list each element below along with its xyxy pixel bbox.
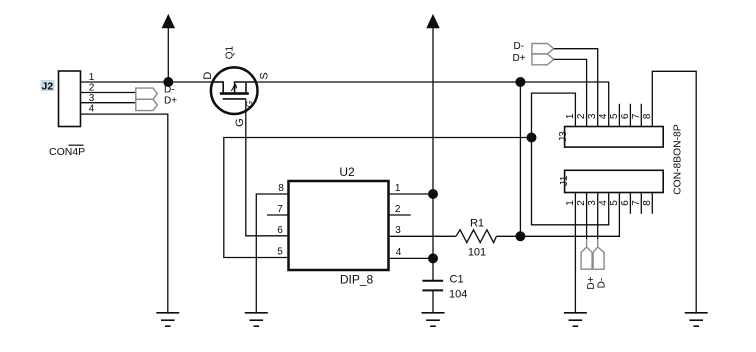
stub J1 pin2 (586, 193, 588, 240)
junction node U2 pin4 / C1 (428, 253, 438, 263)
wire node A down to J1 pin4 (532, 138, 609, 225)
stub J1 pin3 (597, 193, 599, 240)
svg-text:C1: C1 (450, 273, 464, 285)
net flag D+ (top right) (532, 54, 554, 65)
svg-text:2: 2 (576, 113, 587, 119)
svg-text:Q1: Q1 (224, 45, 235, 59)
svg-text:7: 7 (277, 204, 283, 215)
svg-text:5: 5 (609, 200, 620, 206)
wire S-net vertical drop (519, 82, 521, 236)
wire U2 pin3 to R1 (389, 235, 456, 237)
svg-text:3: 3 (395, 225, 401, 236)
J3 pin numbers 1-8 (565, 113, 653, 119)
wire junction to J1 pin5 (520, 193, 619, 237)
svg-text:CON-8BON-8P: CON-8BON-8P (673, 124, 684, 195)
capacitor C1 (422, 281, 443, 313)
svg-text:D+: D+ (586, 276, 597, 289)
svg-text:1: 1 (395, 183, 401, 194)
value label CON4P (49, 145, 85, 158)
svg-text:2: 2 (395, 204, 401, 215)
junction node R1 / S-net drop (515, 231, 525, 241)
svg-text:D-: D- (597, 278, 608, 289)
svg-text:4: 4 (89, 103, 95, 114)
junction node U2 pin1 (428, 189, 438, 199)
svg-text:D: D (202, 72, 214, 80)
stub U2 pin7 (267, 214, 289, 216)
svg-text:6: 6 (620, 113, 631, 119)
ground (J1 pin1) (564, 313, 587, 326)
net flag D+ (bottom, J1 pin2) (581, 239, 592, 269)
svg-text:5: 5 (277, 247, 283, 258)
wire U2 pin4 to VCC line (389, 257, 434, 259)
wire flag D- to J3 pin3 (554, 49, 598, 127)
svg-text:DIP_8: DIP_8 (340, 273, 374, 287)
ground (far right) (685, 313, 708, 326)
connector J2 body (59, 71, 81, 127)
wire node A up to J3 pin1 (532, 93, 576, 137)
svg-text:1: 1 (565, 113, 576, 119)
connector J3 body (565, 127, 664, 148)
svg-text:6: 6 (277, 225, 283, 236)
stub J3 pin5 (618, 104, 620, 127)
svg-text:6: 6 (620, 200, 631, 206)
wire Q1 source to J3 pin4 (S net) (257, 82, 609, 127)
svg-text:101: 101 (468, 246, 486, 258)
svg-text:4: 4 (396, 247, 402, 258)
wire J1 pin1 to ground (574, 193, 576, 313)
svg-text:J2: J2 (42, 80, 54, 92)
junction node at J2 pin1 / Q1 drain (163, 77, 173, 87)
svg-text:5: 5 (609, 113, 620, 119)
net flag D- (bottom, J1 pin3) (593, 239, 604, 269)
stub J1 pin7 (640, 193, 642, 214)
svg-text:J3: J3 (558, 131, 569, 142)
ground (J2 pin4) (156, 313, 179, 326)
wire U2 pin8 to ground (256, 194, 288, 313)
svg-text:1: 1 (565, 200, 576, 206)
net flag D+ at J2 (136, 99, 158, 110)
junction node A (U2 pin5 net) (527, 133, 537, 143)
svg-text:S: S (259, 72, 271, 79)
svg-text:8: 8 (278, 183, 284, 194)
svg-text:3: 3 (587, 113, 598, 119)
svg-text:D+: D+ (164, 95, 177, 106)
svg-text:4: 4 (598, 113, 609, 119)
svg-text:104: 104 (449, 289, 467, 301)
net flag D- (top right) (532, 44, 554, 54)
svg-text:G: G (234, 118, 246, 127)
resistor R1 (456, 230, 497, 243)
svg-text:D+: D+ (513, 53, 526, 64)
stub J1 pin8 (651, 193, 653, 214)
wire node to Q1 drain (168, 81, 211, 83)
svg-text:4: 4 (598, 200, 609, 206)
refdes J2 (selected highlight) (41, 80, 55, 92)
svg-text:J1: J1 (559, 175, 570, 186)
wire J3 pin8 to ground (far right) (652, 71, 696, 312)
svg-text:8: 8 (642, 113, 653, 119)
stub J1 pin6 (629, 193, 631, 214)
net flag D- at J2 (136, 88, 158, 99)
stub U2 pin2 (389, 214, 411, 216)
stub J3 pin6 (629, 104, 631, 127)
wire U2 pin5 net to node A (224, 138, 532, 258)
ground (C1) (422, 313, 445, 326)
power symbol arrow (left) (162, 15, 174, 82)
svg-text:2: 2 (576, 200, 587, 206)
junction node on S line (515, 77, 525, 87)
wire R1 to junction (496, 235, 520, 237)
svg-text:8: 8 (642, 200, 653, 206)
J1 pin numbers 1-8 (565, 200, 653, 206)
wire J2 pin2 to flag D- (81, 92, 136, 94)
wire J2 pin4 to ground (81, 114, 168, 313)
svg-text:U2: U2 (339, 165, 355, 179)
svg-text:7: 7 (631, 200, 642, 206)
wire Q1 gate down to U2 pin6 (246, 99, 289, 236)
connector J1 body (565, 170, 664, 192)
svg-text:CON4P: CON4P (49, 146, 85, 158)
transistor Q1 (MOSFET) (211, 67, 258, 114)
wire J2 pin3 to flag D+ (81, 102, 136, 104)
wire J2 pin1 to node VCC (81, 81, 169, 83)
svg-text:3: 3 (587, 200, 598, 206)
svg-text:D-: D- (514, 41, 525, 52)
wire flag D+ to J3 pin2 (554, 59, 587, 126)
svg-text:R1: R1 (470, 218, 484, 230)
svg-text:7: 7 (631, 113, 642, 119)
power symbol arrow (right) (427, 15, 439, 280)
wire U2 pin1 to VCC line (389, 193, 434, 195)
IC U2 body (289, 181, 389, 270)
stub J3 pin7 (640, 104, 642, 127)
ground (U2 pin8) (245, 313, 268, 326)
